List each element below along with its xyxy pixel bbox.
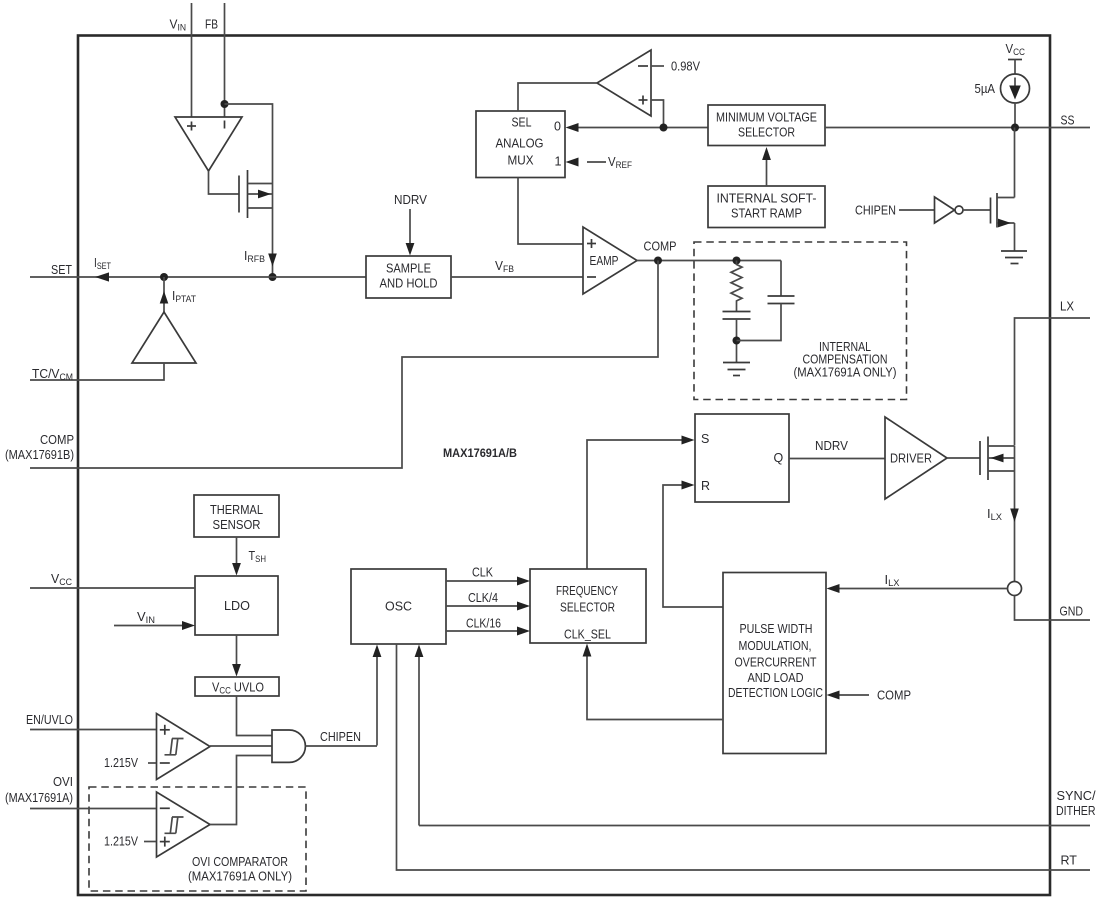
wire sense to GND pin [1015,596,1091,621]
AND gate G1 [272,730,305,762]
wire AND output CHIPEN [306,745,378,747]
svg-text:AND HOLD: AND HOLD [380,277,438,291]
svg-text:R: R [701,479,710,493]
wire VCC pin to LDO [30,587,195,589]
wire ILX to PWM logic [839,588,1008,590]
wire U3 output to MUX SEL [518,83,597,111]
svg-text:SET: SET [51,263,72,277]
svg-text:EN/UVLO: EN/UVLO [26,713,73,727]
svg-text:5µA: 5µA [975,82,996,96]
svg-text:OVERCURRENT: OVERCURRENT [735,656,817,670]
node SS/comparator junction [660,124,668,132]
wire comparator to AND [210,745,272,747]
svg-text:SAMPLE: SAMPLE [386,262,431,276]
block U10 OSC [351,569,446,644]
svg-text:FREQUENCY: FREQUENCY [556,584,619,598]
svg-text:OSC: OSC [385,600,412,614]
wire FB to M1 drain [225,104,273,184]
svg-text:COMP: COMP [644,240,677,254]
amplifier A2 (IPTAT source) [132,312,196,363]
power VCC (soft-start source) [1006,42,1026,74]
capacitor C2 branch [780,261,782,297]
wire EAMP output (COMP node) [637,260,781,262]
wire MUX output to EAMP noninverting input [518,178,583,245]
node SS junction [1011,124,1019,132]
svg-text:THERMAL: THERMAL [210,503,263,517]
svg-text:EAMP: EAMP [590,254,619,268]
arrow soft-start ramp to MVS [766,158,768,186]
svg-text:OVI COMPARATOR: OVI COMPARATOR [192,855,288,869]
svg-text:COMPENSATION: COMPENSATION [803,353,888,367]
comparator U16 EN/UVLO [157,714,211,780]
svg-text:0: 0 [554,120,561,134]
wire CLK/16 [446,630,518,632]
svg-text:S: S [701,432,709,446]
svg-text:0.98V: 0.98V [671,60,701,74]
block U13 THERMAL SENSOR [194,495,279,537]
svg-text:1: 1 [555,155,562,169]
arrow LDO to VCC UVLO [236,635,238,664]
block U4 MINIMUM VOLTAGE SELECTOR [708,105,825,146]
label 0.98V [651,65,664,67]
resistor R1 [731,261,742,312]
svg-text:INTERNAL SOFT-: INTERNAL SOFT- [717,192,817,206]
wire VIN vertical [191,3,193,117]
wire VCC UVLO to AND gate [237,696,273,736]
svg-text:(MAX17691A ONLY): (MAX17691A ONLY) [794,366,897,380]
arrow ISET (left) [95,272,109,281]
block U5 INTERNAL SOFT-START RAMP [708,186,825,228]
ground (compensation) [723,363,750,376]
wire RT pin to OSC [397,644,1091,870]
wire COMP to COMP(MAX17691B) pin [30,261,658,469]
transistor M1 (feedback MOSFET) [239,170,273,218]
wire SYNC/DITHER pin to OSC [419,825,1090,827]
block U12 PWM logic [723,573,826,754]
arrow NDRV into sample-and-hold [409,209,411,245]
svg-text:(MAX17691B): (MAX17691B) [5,448,74,462]
svg-text:LDO: LDO [224,599,250,613]
transistor M2 (SS discharge) [991,193,1015,228]
comparator U3 (0.98V select) [597,50,651,116]
node compensation R top [733,257,741,265]
svg-text:MINIMUM VOLTAGE: MINIMUM VOLTAGE [716,111,817,125]
wire U3 plus input from SS node [651,100,664,128]
node IPTAT junction [160,273,168,281]
svg-text:SENSOR: SENSOR [213,518,261,532]
svg-text:SYNC/: SYNC/ [1057,789,1097,803]
block U2 ANALOG MUX [476,111,565,178]
block U8 SR latch [695,414,789,502]
svg-text:(MAX17691A): (MAX17691A) [5,791,73,805]
svg-text:AND LOAD: AND LOAD [748,671,804,685]
svg-text:CLK/16: CLK/16 [466,617,501,631]
arrow VREF into MUX input 1 [587,161,606,163]
svg-text:CHIPEN: CHIPEN [320,730,361,744]
svg-text:START RAMP: START RAMP [731,207,802,221]
svg-text:GND: GND [1060,605,1084,619]
wire TC/VCM to A2 [30,363,164,380]
arrow TSH into LDO [236,537,238,564]
wire M3 source with ILX arrow [1014,471,1016,582]
svg-text:CLK_SEL: CLK_SEL [564,628,611,642]
block U1 SAMPLE AND HOLD [366,256,451,298]
op-amp A1 (FB buffer) [175,117,242,171]
wire M3 drain to LX pin [1015,318,1091,446]
arrow IPTAT (up) [163,277,165,312]
wire A1 output to M1 gate [209,171,240,194]
svg-text:DETECTION LOGIC: DETECTION LOGIC [728,686,823,700]
wire C1 to ground node [736,319,738,362]
wire driver to M3 gate [947,457,980,459]
svg-text:NDRV: NDRV [394,193,428,207]
svg-text:MUX: MUX [508,154,535,168]
wire CHIPEN to OSC [376,656,378,746]
driver U9 [885,417,947,499]
node COMP [654,257,662,265]
svg-text:RT: RT [1061,854,1078,868]
svg-text:MAX17691A/B: MAX17691A/B [443,446,517,460]
inverter U7 [935,197,964,223]
svg-text:1.215V: 1.215V [104,756,139,770]
arrow COMP into PWM [839,694,869,696]
wire SS node to M2 drain [1014,128,1016,198]
wire EN/UVLO pin to comparator [30,729,156,731]
wire OVI comparator to AND [210,756,272,825]
wire MVS to SS pin [825,127,1090,129]
label internal compensation [794,340,897,380]
wire CHIPEN to inverter [899,209,935,211]
svg-text:CLK: CLK [472,566,494,580]
dashed box OVI comparator [89,787,306,891]
wire FB vertical [224,3,226,117]
svg-text:CLK/4: CLK/4 [468,591,498,605]
svg-text:LX: LX [1060,300,1075,314]
block U14 LDO [195,576,278,635]
svg-text:DITHER: DITHER [1056,804,1096,818]
svg-text:MODULATION,: MODULATION, [739,639,812,653]
wire C2 to bottom node [737,304,782,341]
svg-text:1.215V: 1.215V [104,835,139,849]
block U11 FREQUENCY SELECTOR [530,569,646,643]
arrow VIN into LDO [114,625,183,627]
transistor M3 (output NFET) [980,437,1015,481]
wire S input from frequency selector [587,440,682,569]
wire OVI pin to comparator [30,808,156,810]
svg-text:COMP: COMP [40,433,74,447]
svg-text:Q: Q [774,451,784,465]
svg-text:CHIPEN: CHIPEN [855,204,896,218]
wire SET line [30,276,366,278]
wire R input from PWM logic [663,485,723,607]
node FB junction [221,100,229,108]
wire VFB to EAMP inverting input [451,276,583,278]
svg-text:FB: FB [205,18,218,32]
capacitor C1 [723,312,751,320]
wire M2 source to ground [1014,223,1016,251]
node compensation bottom [733,337,741,345]
wire PWM to CLK_SEL [587,656,723,720]
svg-text:(MAX17691A ONLY): (MAX17691A ONLY) [188,870,292,884]
wire I1 to SS node [1014,103,1016,128]
wire Q to driver (NDRV) [789,458,885,460]
wire M1 source to SET line with IRFB arrow [272,208,274,277]
node M1/SET junction [269,273,277,281]
svg-text:SELECTOR: SELECTOR [738,126,795,140]
svg-text:NDRV: NDRV [815,439,849,453]
svg-text:DRIVER: DRIVER [890,452,932,466]
svg-text:PULSE WIDTH: PULSE WIDTH [740,622,813,636]
svg-text:ANALOG: ANALOG [496,137,544,151]
comparator U17 OVI [157,792,211,857]
wire CLK [446,580,518,582]
svg-text:SS: SS [1061,114,1075,128]
svg-text:SEL: SEL [512,116,532,130]
svg-text:SELECTOR: SELECTOR [560,601,615,615]
wire CLK/4 [446,605,518,607]
wire inverter to M2 gate [963,209,991,211]
ground (M2) [1001,251,1027,264]
current source I1 5uA [1001,74,1030,103]
block U15 VCC UVLO [195,677,279,696]
wire MVS to MUX input 0 [577,127,708,129]
svg-text:COMP: COMP [877,689,911,703]
dashed box internal compensation [694,242,907,400]
op-amp U6 EAMP [583,227,637,294]
current sense node (circle) [1008,582,1022,596]
svg-text:OVI: OVI [53,775,73,789]
